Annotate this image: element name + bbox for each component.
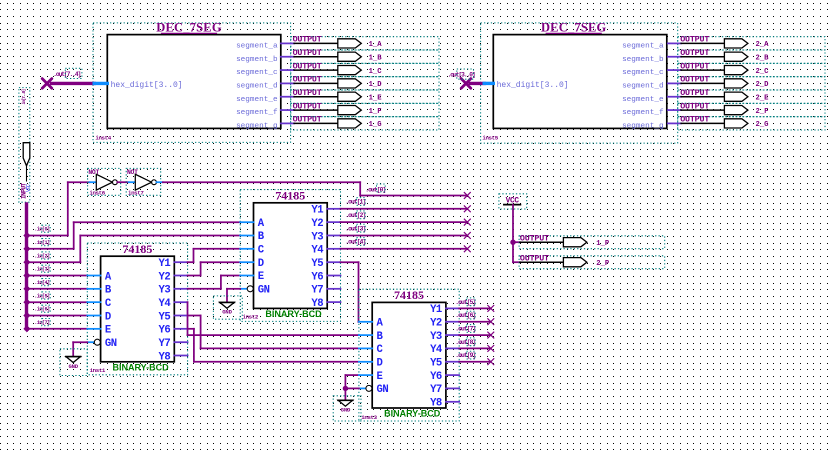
svg-text:OUTPUT: OUTPUT: [680, 48, 709, 58]
dangling end x out[0]: [464, 192, 471, 199]
net label in[0]: [34, 225, 50, 232]
svg-text:1_E: 1_E: [369, 95, 383, 103]
svg-text:Y7: Y7: [430, 384, 442, 396]
net label out[3]: [345, 224, 365, 232]
svg-text:OUTPUT: OUTPUT: [680, 101, 709, 111]
svg-text:segment_b: segment_b: [622, 56, 664, 64]
DEC_7SEG block inst5 selection box: [481, 23, 678, 143]
svg-text:E: E: [105, 325, 111, 337]
wire VCC down: [512, 205, 514, 263]
svg-text:Y3: Y3: [158, 285, 170, 297]
output pin 1_F: [281, 101, 439, 116]
svg-text:1_C: 1_C: [369, 68, 383, 76]
svg-text:74185: 74185: [275, 189, 305, 203]
dangling end x out[2]: [464, 219, 471, 226]
svg-text:BINARY-BCD: BINARY-BCD: [384, 409, 441, 419]
svg-text:Y2: Y2: [311, 218, 323, 230]
wire in[0] riser to NOT chain: [67, 182, 69, 235]
74185 block inst2 body: [254, 189, 328, 320]
wire in[3] tap: [27, 275, 88, 277]
svg-text:GN: GN: [258, 285, 270, 297]
wire in[5] tap: [27, 301, 88, 303]
svg-text:E: E: [377, 371, 383, 383]
output pin 2_C: [668, 61, 825, 76]
junction inst3 E GN: [343, 386, 348, 391]
GN bubble inst2: [240, 286, 253, 292]
svg-text:OUTPUT: OUTPUT: [293, 61, 322, 71]
wire inst3 Y1 net out[5]: [446, 307, 491, 309]
dangling end x out[5]: [487, 305, 494, 312]
bus tap junction in[4]: [24, 286, 31, 293]
svg-text:segment_a: segment_a: [236, 43, 278, 51]
output pin 1_P: [519, 233, 665, 248]
svg-text:Y8: Y8: [158, 351, 170, 363]
svg-text:Y4: Y4: [311, 245, 324, 257]
net label out[8]: [455, 338, 475, 346]
svg-text:Y2: Y2: [430, 318, 442, 330]
svg-text:OUTPUT: OUTPUT: [293, 101, 322, 111]
svg-text:Y2: Y2: [158, 271, 170, 283]
DEC_7SEG block inst5 body: [493, 21, 667, 131]
GN bubble inst1: [87, 339, 100, 345]
svg-text:segment_f: segment_f: [236, 109, 278, 117]
svg-text:.out[5]: .out[5]: [455, 299, 475, 306]
dangling end x out[8]: [487, 345, 494, 352]
wire inst2 Y5 to inst3 A: [327, 262, 359, 322]
bus wire out[7..4] into inst4 hex_digit: [52, 82, 108, 85]
74185 block inst1 body: [101, 242, 175, 373]
svg-text:OUTPUT: OUTPUT: [680, 88, 709, 98]
svg-text:.out[4]: .out[4]: [345, 239, 365, 246]
net label out[0]: [365, 184, 385, 193]
svg-text:2_P: 2_P: [596, 260, 610, 268]
svg-text:inst3: inst3: [361, 414, 377, 421]
74185 block inst1 selection box: [87, 243, 187, 375]
svg-text:.out[3..0]: .out[3..0]: [448, 71, 475, 78]
stub inst3 Y8: [446, 401, 459, 403]
svg-text:BINARY-BCD: BINARY-BCD: [113, 363, 170, 373]
74185 block inst2 selection box: [240, 190, 340, 322]
svg-text:Y7: Y7: [158, 338, 170, 350]
svg-text:OUTPUT: OUTPUT: [293, 48, 322, 58]
output pin 1_E: [281, 88, 439, 103]
output pin 2_A: [668, 35, 825, 50]
bus tap junction in[0]: [24, 232, 31, 239]
svg-text:Y1: Y1: [311, 205, 323, 217]
wire in[2] riser: [79, 236, 81, 263]
net label out[2]: [345, 211, 365, 219]
svg-text:GN: GN: [105, 338, 117, 350]
svg-text:OUTPUT: OUTPUT: [293, 35, 322, 45]
svg-text:1_G: 1_G: [369, 121, 382, 129]
svg-text:inst7: inst7: [128, 190, 144, 197]
svg-text:OUTPUT: OUTPUT: [680, 35, 709, 45]
stub inst2 E: [240, 275, 253, 277]
net label in[6]: [34, 305, 50, 312]
wire in[0] to NOT inst6 input: [68, 181, 97, 183]
wire in[7] tap: [27, 328, 88, 330]
junction at 1_P: [510, 240, 515, 245]
svg-text:OUTPUT: OUTPUT: [293, 75, 322, 85]
svg-text:segment_c: segment_c: [236, 69, 278, 77]
svg-text:1_A: 1_A: [369, 41, 383, 49]
output pin 1_D: [281, 75, 439, 90]
svg-text:OUTPUT: OUTPUT: [293, 88, 322, 98]
svg-text:74185: 74185: [394, 288, 424, 302]
wire inst1 Y6 to inst3 D: [174, 329, 359, 362]
wire inst3 E to GND junction: [345, 375, 372, 388]
wire in[1] riser: [73, 222, 75, 249]
stub inst2 D: [240, 261, 253, 263]
svg-text:.out[3]: .out[3]: [345, 225, 365, 232]
svg-text:NOT: NOT: [127, 169, 138, 176]
wire in[1] to inst2 A: [74, 221, 241, 223]
svg-text:segment_d: segment_d: [236, 82, 278, 90]
wire inst3 GN to GND: [345, 387, 359, 389]
ground gnd1: [60, 349, 87, 376]
svg-text:.out[6]: .out[6]: [455, 312, 475, 319]
74185 block inst3 body: [372, 288, 446, 419]
svg-text:segment_d: segment_d: [622, 82, 664, 90]
svg-text:D: D: [105, 311, 111, 323]
output pin 2_P: [519, 253, 665, 268]
stub inst2 Y7: [327, 288, 340, 290]
svg-text:.out[1]: .out[1]: [345, 199, 365, 206]
wire inst1 Y5 to inst3 C: [174, 316, 359, 349]
bus tap junction in[3]: [24, 272, 31, 279]
svg-text:segment_g: segment_g: [622, 122, 664, 130]
svg-text:.out[0]: .out[0]: [365, 186, 385, 193]
svg-text:NOT: NOT: [88, 169, 99, 176]
svg-text:Y1: Y1: [430, 304, 442, 316]
stub inst3 C: [359, 347, 372, 349]
wire in[4] tap: [27, 288, 88, 290]
svg-text:inst6: inst6: [89, 190, 105, 197]
svg-text:.out[2]: .out[2]: [345, 212, 365, 219]
svg-text:GND: GND: [222, 309, 232, 316]
svg-text:Y3: Y3: [430, 331, 442, 343]
wire inst1 Y3 to inst2 E: [174, 276, 240, 289]
svg-text:.out[9]: .out[9]: [455, 352, 475, 359]
svg-text:Y5: Y5: [158, 311, 170, 323]
net label in[2]: [34, 252, 50, 259]
bus tap junction in[2]: [24, 259, 31, 266]
svg-text:1_F: 1_F: [369, 108, 382, 116]
svg-text:Y6: Y6: [158, 325, 170, 337]
ground gnd2: [213, 296, 242, 319]
svg-text:2_C: 2_C: [756, 68, 770, 76]
svg-text:segment_f: segment_f: [622, 109, 664, 117]
stub inst3 B: [359, 334, 372, 336]
stub inst2 C: [240, 248, 253, 250]
svg-text:GN: GN: [377, 384, 389, 396]
GN bubble inst3: [359, 385, 372, 391]
net label out[1]: [345, 198, 365, 206]
stub inst2 Y6: [327, 275, 340, 277]
wire inst3 Y2 net out[6]: [446, 321, 491, 323]
wire inst1 GN to GND: [73, 342, 87, 356]
dangling end x out[9]: [487, 358, 494, 365]
wire inst1 Y1 to inst2 C: [174, 249, 240, 262]
svg-text:segment_g: segment_g: [236, 122, 278, 130]
output pin 1_B: [281, 48, 439, 63]
svg-text:OUTPUT: OUTPUT: [680, 61, 709, 71]
wire in[2] to inst2 B: [80, 235, 240, 237]
stub inst1 E: [87, 328, 100, 330]
input bus vertical in[7..0]: [25, 204, 28, 329]
svg-text:Y8: Y8: [311, 298, 323, 310]
wire inst3 Y3 net out[7]: [446, 334, 491, 336]
svg-text:Y7: Y7: [311, 285, 323, 297]
net label in[3]: [34, 265, 50, 272]
svg-text:1_B: 1_B: [369, 55, 383, 63]
svg-text:2_G: 2_G: [756, 121, 769, 129]
stub inst2 B: [240, 235, 253, 237]
bus wire out[3..0] into inst5 hex_digit: [470, 82, 493, 85]
output pin 1_G: [281, 115, 439, 130]
svg-text:Y6: Y6: [430, 371, 442, 383]
net label out[6]: [455, 311, 475, 319]
net label in[1]: [34, 239, 50, 246]
svg-text:OUTPUT: OUTPUT: [680, 75, 709, 85]
stub inst1 B: [87, 288, 100, 290]
svg-text:Y8: Y8: [430, 398, 442, 410]
wire inst2 Y1 net out[1]: [327, 208, 467, 210]
stub inst3 D: [359, 361, 372, 363]
wire elbow to 2_P pin: [513, 261, 520, 263]
svg-text:inst5: inst5: [482, 135, 498, 142]
stub inst3 Y7: [446, 387, 459, 389]
svg-text:BINARY-BCD: BINARY-BCD: [265, 309, 322, 319]
wire in[0] tap: [27, 235, 68, 237]
input pin in[7..0]: [19, 88, 32, 203]
svg-text:GND: GND: [68, 363, 78, 370]
wire inst1 Y4 to inst3 B: [174, 302, 359, 335]
dangling-bus X marker left: [42, 79, 52, 89]
svg-text:.out[7]: .out[7]: [455, 326, 475, 333]
dangling end x out[6]: [487, 318, 494, 325]
dangling end x out[4]: [464, 245, 471, 252]
svg-text:.out[8]: .out[8]: [455, 339, 475, 346]
svg-text:segment_e: segment_e: [622, 96, 664, 104]
svg-text:Y5: Y5: [430, 358, 442, 370]
NOT gate inst7: [126, 168, 161, 196]
svg-text:segment_c: segment_c: [622, 69, 664, 77]
svg-text:2_F: 2_F: [756, 108, 769, 116]
wire inst2 Y4 net out[4]: [327, 248, 467, 250]
dangling end x out[7]: [487, 332, 494, 339]
svg-text:hex_digit[3..0]: hex_digit[3..0]: [111, 81, 183, 90]
svg-text:Y1: Y1: [158, 258, 170, 270]
svg-text:OUTPUT: OUTPUT: [680, 115, 709, 125]
dangling-bus X marker right: [461, 79, 471, 89]
svg-text:Y3: Y3: [311, 231, 323, 243]
net label out[3..0]: [448, 69, 475, 79]
dangling end x out[3]: [464, 232, 471, 239]
svg-text:hex_digit[3..0]: hex_digit[3..0]: [497, 81, 569, 90]
svg-text:D: D: [258, 258, 264, 270]
output pin 2_F: [668, 101, 825, 116]
net label in[4]: [34, 279, 50, 286]
svg-text:2_B: 2_B: [756, 55, 770, 63]
net label in[7]: [34, 319, 50, 326]
wire inst3 Y5 net out[9]: [446, 361, 491, 363]
output pin 2_B: [668, 48, 825, 63]
DEC_7SEG block inst4 selection box: [93, 23, 291, 142]
stub inst1 A: [87, 275, 100, 277]
74185 block inst3 selection box: [359, 289, 459, 421]
stub inst1 C: [87, 301, 100, 303]
stub inst2 A: [240, 221, 253, 223]
svg-text:Y6: Y6: [311, 271, 323, 283]
wire inst2 Y2 net out[2]: [327, 221, 467, 223]
output pin 1_A: [281, 35, 439, 50]
stub inst1 D: [87, 314, 100, 316]
net label out[7]: [455, 325, 475, 333]
svg-text:E: E: [258, 271, 264, 283]
svg-text:74185: 74185: [122, 242, 152, 256]
stub inst1 Y7: [174, 341, 187, 343]
dangling end x out[1]: [464, 205, 471, 212]
wire to 1_P pin: [513, 241, 520, 243]
power symbol VCC: [499, 194, 527, 209]
net label in[5]: [34, 292, 50, 299]
bus tap junction in[6]: [24, 312, 31, 319]
svg-text:.out[7..4]: .out[7..4]: [53, 71, 80, 78]
svg-text:OUTPUT: OUTPUT: [293, 115, 322, 125]
svg-text:inst2: inst2: [243, 313, 259, 320]
svg-text:GND: GND: [341, 407, 351, 414]
stub inst1 Y8: [174, 355, 187, 357]
svg-text:1_P: 1_P: [596, 240, 610, 248]
wire in[2] tap: [27, 261, 81, 263]
stub inst3 A: [359, 321, 372, 323]
output pin 2_G: [668, 115, 825, 130]
svg-text:inst1: inst1: [90, 367, 106, 374]
stub inst2 Y8: [327, 301, 340, 303]
bus tap junction in[1]: [24, 246, 31, 253]
svg-text:segment_e: segment_e: [236, 96, 278, 104]
output pin 1_C: [281, 61, 439, 76]
svg-text:DEC_7SEG: DEC_7SEG: [541, 21, 607, 35]
svg-text:VCC: VCC: [26, 184, 32, 192]
ground gnd3: [333, 396, 361, 421]
DEC_7SEG block inst4 body: [107, 21, 280, 131]
svg-text:D: D: [377, 357, 383, 369]
wire inst1 Y2 to inst2 D: [174, 262, 240, 275]
svg-text:inst4: inst4: [95, 135, 111, 142]
svg-text:OUTPUT: OUTPUT: [520, 233, 549, 243]
net label out[9]: [455, 351, 475, 359]
svg-text:Y5: Y5: [311, 258, 323, 270]
svg-text:segment_b: segment_b: [236, 56, 278, 64]
svg-text:2_E: 2_E: [756, 95, 770, 103]
bus tap junction in[7]: [24, 326, 31, 333]
output pin 2_D: [668, 75, 825, 90]
wire junction down to GND: [344, 388, 346, 400]
wire between NOT gates: [117, 181, 135, 183]
NOT gate inst6: [88, 168, 121, 196]
svg-text:in[7..0]: in[7..0]: [21, 90, 27, 105]
svg-text:1_D: 1_D: [369, 81, 383, 89]
wire in[1] tap: [27, 248, 74, 250]
wire in[6] tap: [27, 315, 88, 317]
svg-text:Y4: Y4: [158, 298, 171, 310]
wire inst2 GN to GND: [227, 289, 240, 303]
svg-text:2_A: 2_A: [756, 41, 770, 49]
svg-text:2_D: 2_D: [756, 81, 770, 89]
svg-text:OUTPUT: OUTPUT: [520, 253, 549, 263]
wire inst2 Y3 net out[3]: [327, 234, 467, 236]
wire inst3 Y4 net out[8]: [446, 347, 491, 349]
net label out[5]: [455, 298, 475, 306]
stub inst3 Y6: [446, 374, 459, 376]
net label out[4]: [345, 238, 365, 246]
wire NOT inst7 output to net out[0]: [156, 182, 467, 195]
net label out[7..4]: [53, 68, 82, 78]
svg-text:Y4: Y4: [430, 344, 443, 356]
output pin 2_E: [668, 88, 825, 103]
bus tap junction in[5]: [24, 299, 31, 306]
svg-text:segment_a: segment_a: [622, 43, 664, 51]
svg-text:DEC_7SEG: DEC_7SEG: [156, 21, 222, 35]
